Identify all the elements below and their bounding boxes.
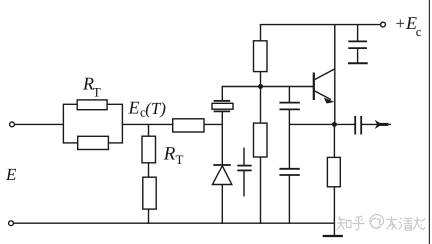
watermark 知乎 @李清龙 [337, 215, 425, 231]
ground rail [13, 222, 334, 224]
transistor Q1 emitter with arrow [315, 91, 335, 104]
resistor RT (top of parallel pair) [77, 100, 107, 110]
resistor (lower of vertical pair) [143, 177, 156, 209]
svg-text:R: R [163, 143, 176, 164]
wire crystal top [221, 86, 223, 101]
svg-text:E: E [5, 165, 17, 184]
resistor R series [173, 119, 204, 132]
wire bottom branch right [108, 142, 123, 144]
svg-text:E: E [128, 98, 140, 118]
svg-text:c: c [416, 24, 422, 39]
wire resistor to node A [204, 123, 223, 125]
right border line [428, 0, 430, 244]
wire node B to R2 [260, 87, 262, 124]
wire top branch right [107, 103, 123, 105]
resistor R3 (emitter) [327, 157, 340, 186]
diode D1 (varactor) [212, 165, 231, 185]
capacitor C2 [279, 169, 299, 175]
wire node E to R3 [333, 124, 335, 157]
wire R3 to ground [333, 187, 335, 236]
ground symbol [323, 235, 343, 237]
wire node A to diode [221, 124, 223, 165]
transistor Q1 collector [315, 69, 335, 80]
svg-text:+: + [396, 14, 406, 33]
+Ec terminal [381, 22, 386, 27]
capacitor C1 [279, 103, 299, 110]
resistor RT (upper of vertical pair) [142, 136, 156, 163]
input terminal E (top-left) [10, 122, 15, 127]
node left of parallel RT pair [62, 104, 64, 143]
wire rail to C4 [357, 25, 359, 42]
bottom terminal [9, 221, 14, 226]
wire R1 to node B [260, 71, 262, 86]
wire bottom branch left [63, 142, 78, 144]
junction node E (emitter) [332, 122, 337, 127]
svg-text:(T): (T) [145, 99, 166, 118]
wire RT divider to ground rail [148, 209, 150, 224]
label E (input) [5, 165, 17, 184]
wire rail to R1 [260, 25, 262, 41]
wire crystal to node A [221, 111, 223, 124]
wire down to RT divider [148, 124, 150, 136]
label RT (parallel pair) [82, 74, 101, 100]
wire base rail to C1 [288, 87, 290, 103]
base rail wire [222, 86, 313, 88]
emitter node wire [289, 123, 355, 125]
node right of parallel RT pair [121, 104, 123, 143]
svg-text:T: T [93, 85, 101, 100]
resistor R1 (divider top) [254, 41, 268, 72]
wire between vertical resistors [148, 163, 150, 177]
capacitor C3 (beside diode) [237, 148, 251, 197]
wire R2 to ground rail [260, 157, 262, 224]
resistor (bottom of parallel pair) [78, 136, 109, 149]
svg-text:T: T [176, 152, 184, 167]
wire C2 to ground rail [288, 175, 290, 224]
output arrow [375, 120, 389, 129]
top rail +Ec [260, 24, 381, 26]
ground symbol (C4) [348, 62, 368, 64]
wire C1 to C2 [288, 109, 290, 168]
collector wire (rail to emitter node) [334, 25, 336, 125]
wire diode to ground rail [221, 185, 223, 224]
label Ec(T) [128, 98, 167, 120]
transistor Q1 base bar [313, 73, 315, 101]
output wire [361, 123, 391, 125]
resistor R2 (divider bottom) [254, 123, 268, 157]
output capacitor C5 [355, 116, 361, 135]
wire top branch left [63, 103, 77, 105]
wire input to parallel pair [14, 123, 63, 125]
label +Ec [396, 13, 422, 39]
label RT (vertical divider) [163, 143, 184, 167]
wire C4 to ground [357, 48, 359, 63]
junction node B [258, 84, 263, 89]
crystal Y1 [212, 101, 233, 112]
capacitor C4 (bypass) [348, 41, 367, 48]
wire node Ec(T) [122, 123, 172, 125]
